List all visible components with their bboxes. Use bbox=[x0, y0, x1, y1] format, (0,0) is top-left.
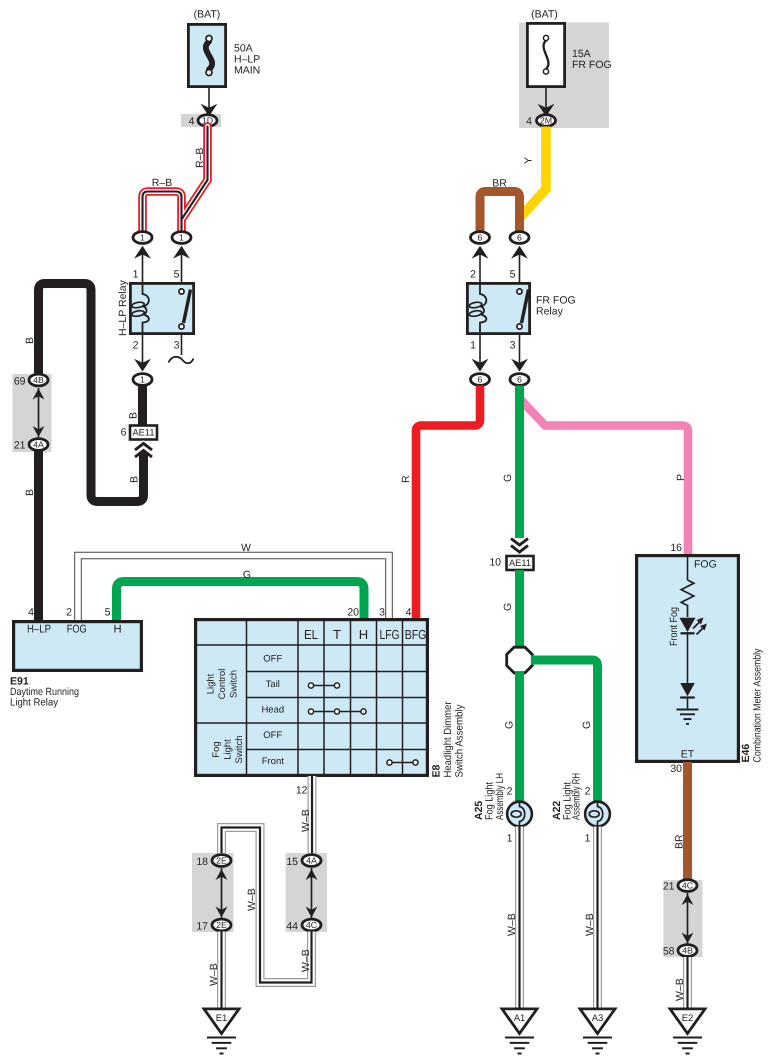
svg-text:(BAT): (BAT) bbox=[194, 9, 221, 21]
svg-text:4B: 4B bbox=[33, 375, 44, 385]
fuse F2 15A FR FOG bbox=[527, 9, 611, 87]
svg-text:6: 6 bbox=[478, 374, 483, 384]
svg-text:B: B bbox=[129, 476, 141, 483]
relay FR FOG Relay bbox=[467, 283, 575, 351]
svg-text:B: B bbox=[128, 412, 140, 419]
svg-text:Control: Control bbox=[217, 669, 228, 700]
connector 10 AE11 (right) bbox=[489, 556, 533, 570]
svg-text:R–B: R–B bbox=[194, 148, 206, 168]
wire pin16 to resistor bbox=[687, 556, 689, 580]
switch table top pin labels 20,3,4 bbox=[347, 607, 411, 619]
svg-text:4A: 4A bbox=[33, 439, 44, 449]
svg-text:Front: Front bbox=[262, 756, 285, 767]
svg-text:ET: ET bbox=[681, 749, 695, 761]
connector pair 21 4C / 58 4B bbox=[663, 880, 703, 958]
connector 4 1D bbox=[181, 114, 221, 128]
wire LED to diode bbox=[687, 632, 689, 683]
svg-text:21: 21 bbox=[14, 440, 26, 452]
svg-text:17: 17 bbox=[196, 921, 208, 933]
svg-text:Switch: Switch bbox=[234, 736, 245, 764]
svg-text:W–B: W–B bbox=[584, 913, 596, 936]
svg-text:4: 4 bbox=[189, 116, 195, 128]
wire W-B A22 to ground A3 bbox=[584, 827, 598, 1010]
combination meter E46 box bbox=[637, 542, 764, 763]
switch contacts Front row LFG-BFG bbox=[387, 760, 418, 765]
svg-text:Tail: Tail bbox=[266, 679, 280, 690]
svg-text:6: 6 bbox=[517, 232, 522, 242]
svg-text:MAIN: MAIN bbox=[234, 65, 260, 77]
wire G junction branch to A22 bbox=[531, 660, 598, 801]
connector 1 (left) bbox=[133, 232, 152, 259]
svg-text:R: R bbox=[400, 475, 412, 483]
svg-text:58: 58 bbox=[663, 946, 675, 958]
svg-text:Combination Meter Assembly: Combination Meter Assembly bbox=[752, 648, 764, 763]
svg-text:G: G bbox=[504, 721, 516, 729]
connector 6 (below relay pin 3) bbox=[510, 374, 529, 386]
svg-text:3: 3 bbox=[379, 607, 385, 619]
svg-text:W–B: W–B bbox=[246, 888, 258, 911]
svg-text:2M: 2M bbox=[540, 115, 552, 125]
label E8 Headlight Dimmer Switch Assembly bbox=[431, 701, 466, 777]
wire G from E91 pin 5 to switch pin 20 bbox=[117, 569, 365, 620]
svg-text:2: 2 bbox=[585, 786, 591, 798]
wires connectors to H-LP relay pins 1,5 bbox=[133, 250, 182, 283]
wire BR loop to relay connectors bbox=[480, 178, 520, 233]
connector 4 2M bbox=[526, 115, 555, 128]
connector pair 69 4B / 21 4A bbox=[13, 374, 52, 452]
svg-text:4C: 4C bbox=[682, 880, 694, 890]
wire B from 4A to E91 pin 4 bbox=[24, 451, 39, 621]
svg-text:1: 1 bbox=[133, 269, 139, 281]
connector pair 15 4A / 44 4C bbox=[286, 853, 328, 933]
svg-text:30: 30 bbox=[670, 763, 682, 775]
svg-text:FOG: FOG bbox=[67, 624, 87, 636]
svg-text:W: W bbox=[241, 542, 251, 554]
internal ground (meter) bbox=[677, 698, 699, 724]
switch table E8 Headlight Dimmer Switch Assembly bbox=[196, 620, 428, 776]
svg-text:W–B: W–B bbox=[506, 913, 518, 936]
svg-text:1: 1 bbox=[585, 833, 591, 845]
wire P branch to combination meter pin 16 bbox=[521, 400, 688, 554]
connector 6 (below relay pin 1) bbox=[471, 374, 490, 386]
wire relay pin 2 to connector 1 bbox=[134, 334, 151, 372]
svg-text:3: 3 bbox=[510, 340, 516, 352]
svg-text:Relay: Relay bbox=[536, 306, 564, 318]
svg-text:44: 44 bbox=[286, 921, 298, 933]
svg-text:Assembly RH: Assembly RH bbox=[571, 773, 583, 820]
svg-text:Assembly LH: Assembly LH bbox=[494, 773, 506, 820]
wire G from relay down to AE11 bbox=[502, 386, 528, 553]
wire G junction to A25 bbox=[504, 672, 520, 801]
svg-text:5: 5 bbox=[105, 607, 111, 619]
svg-text:4: 4 bbox=[406, 607, 412, 619]
svg-text:21: 21 bbox=[663, 881, 675, 893]
svg-text:AE11: AE11 bbox=[509, 558, 531, 569]
svg-text:15: 15 bbox=[286, 856, 298, 868]
meter pin ET 30 bbox=[670, 749, 694, 776]
wire B: AE11 down, U-turn left, up and over to 4B bbox=[24, 284, 144, 502]
svg-text:2: 2 bbox=[507, 786, 513, 798]
connector pair 18 2E / 17 2E bbox=[192, 853, 234, 933]
svg-text:16: 16 bbox=[670, 542, 682, 554]
svg-text:4: 4 bbox=[526, 116, 532, 128]
svg-text:1: 1 bbox=[140, 232, 145, 242]
svg-text:(BAT): (BAT) bbox=[531, 9, 558, 21]
diode (meter) bbox=[680, 683, 695, 698]
svg-text:3: 3 bbox=[174, 340, 180, 352]
svg-text:T: T bbox=[333, 627, 341, 642]
svg-text:Head: Head bbox=[261, 705, 284, 716]
ground E2 bbox=[670, 1009, 705, 1054]
svg-text:1: 1 bbox=[140, 374, 145, 384]
svg-text:B: B bbox=[24, 489, 36, 496]
wire W-B A25 to ground A1 bbox=[506, 827, 520, 1010]
svg-text:OFF: OFF bbox=[263, 730, 282, 741]
svg-text:4B: 4B bbox=[682, 945, 693, 955]
svg-text:B: B bbox=[24, 337, 36, 344]
junction node (octagon) bbox=[507, 647, 533, 673]
svg-text:E2: E2 bbox=[682, 1013, 694, 1024]
svg-text:6: 6 bbox=[478, 232, 483, 242]
svg-text:BFG: BFG bbox=[405, 627, 427, 642]
svg-text:OFF: OFF bbox=[263, 654, 282, 665]
connector 1 (below H-LP relay) bbox=[133, 374, 152, 386]
svg-text:G: G bbox=[581, 721, 593, 729]
svg-text:Light: Light bbox=[206, 673, 217, 694]
wire W-B 4B to ground E2 bbox=[674, 957, 688, 1009]
svg-text:G: G bbox=[502, 474, 514, 482]
ground E1 bbox=[204, 1009, 239, 1054]
svg-text:W–B: W–B bbox=[674, 978, 686, 1001]
svg-text:6: 6 bbox=[517, 374, 522, 384]
svg-text:1: 1 bbox=[507, 833, 513, 845]
svg-text:2: 2 bbox=[133, 340, 139, 352]
svg-text:2E: 2E bbox=[216, 920, 227, 930]
wire G AE11 to junction bbox=[502, 570, 520, 647]
resistor (meter) bbox=[681, 580, 694, 617]
svg-text:6: 6 bbox=[121, 427, 127, 439]
ground A3 bbox=[580, 1009, 615, 1054]
fuse F1 50A H-LP MAIN bbox=[188, 9, 260, 87]
svg-text:1: 1 bbox=[470, 340, 476, 352]
svg-text:4: 4 bbox=[28, 607, 34, 619]
svg-text:10: 10 bbox=[489, 557, 501, 569]
svg-text:Front Fog: Front Fog bbox=[668, 607, 680, 646]
svg-text:AE11: AE11 bbox=[133, 428, 155, 439]
svg-text:Y: Y bbox=[523, 157, 535, 164]
svg-text:W–B: W–B bbox=[208, 963, 220, 986]
svg-text:E1: E1 bbox=[216, 1013, 228, 1024]
switch contacts Tail row EL-T bbox=[308, 683, 339, 688]
svg-text:69: 69 bbox=[14, 376, 26, 388]
svg-text:W–B: W–B bbox=[300, 809, 312, 832]
svg-text:BR: BR bbox=[492, 178, 507, 190]
junction block gray panel (FR FOG fuse) bbox=[519, 23, 609, 129]
relay E91 Daytime Running Light Relay bbox=[10, 607, 141, 709]
wire B connector 1 to AE11 bbox=[128, 386, 143, 426]
wires FR FOG relay pins 1,3 to connectors bbox=[472, 334, 528, 372]
wire BR meter to 4C bbox=[674, 762, 688, 879]
wire Y from 2M bbox=[521, 127, 547, 218]
svg-text:5: 5 bbox=[174, 269, 180, 281]
svg-text:FR FOG: FR FOG bbox=[572, 59, 612, 71]
wire W-B switch pin 12 down bbox=[296, 776, 312, 854]
wires connectors to FR FOG relay pins 2,5 bbox=[470, 250, 519, 283]
svg-text:4A: 4A bbox=[306, 855, 317, 865]
wire W from E91 pin 2 to switch pin 3 bbox=[78, 542, 389, 620]
ground A1 bbox=[502, 1009, 537, 1054]
wire fuse F2 to connector 2M bbox=[538, 87, 555, 117]
svg-text:LFG: LFG bbox=[380, 627, 400, 642]
connector 6 (right, FR FOG relay pin 5) bbox=[510, 232, 529, 259]
svg-text:2: 2 bbox=[470, 269, 476, 281]
wire relay pin 3 continuation squiggle bbox=[169, 334, 194, 363]
svg-text:5: 5 bbox=[510, 269, 516, 281]
svg-text:E46: E46 bbox=[740, 744, 752, 763]
svg-text:BR: BR bbox=[674, 834, 686, 849]
svg-text:H–LP: H–LP bbox=[27, 624, 51, 636]
fog light A22 Fog Light Assembly RH bbox=[551, 773, 610, 845]
svg-text:A1: A1 bbox=[514, 1013, 526, 1024]
wire R from relay to switch pin 4 bbox=[400, 386, 480, 620]
wire R-B from 1D to relay pins (red w/ black stripe) bbox=[143, 127, 208, 233]
svg-text:Switch Assembly: Switch Assembly bbox=[454, 704, 466, 778]
svg-text:FOG: FOG bbox=[694, 559, 717, 571]
svg-text:H: H bbox=[113, 624, 121, 636]
svg-text:Light Relay: Light Relay bbox=[10, 697, 59, 709]
svg-text:P: P bbox=[675, 474, 687, 481]
fog light A25 Fog Light Assembly LH bbox=[473, 773, 532, 845]
svg-text:18: 18 bbox=[196, 856, 208, 868]
LED Front Fog bbox=[668, 607, 707, 646]
connector 1 (right) bbox=[172, 232, 191, 259]
svg-text:Headlight Dimmer: Headlight Dimmer bbox=[442, 701, 454, 777]
svg-text:12: 12 bbox=[296, 785, 308, 797]
svg-text:2E: 2E bbox=[216, 855, 227, 865]
svg-text:A3: A3 bbox=[592, 1013, 604, 1024]
svg-text:2: 2 bbox=[66, 607, 72, 619]
svg-text:H–LP Relay: H–LP Relay bbox=[117, 279, 129, 336]
svg-text:G: G bbox=[502, 603, 514, 611]
svg-text:G: G bbox=[243, 569, 251, 581]
svg-text:Light: Light bbox=[223, 739, 234, 760]
svg-text:20: 20 bbox=[347, 607, 359, 619]
svg-text:Switch: Switch bbox=[229, 670, 240, 698]
svg-text:4C: 4C bbox=[306, 920, 318, 930]
svg-text:E8: E8 bbox=[431, 764, 443, 777]
svg-text:1: 1 bbox=[179, 232, 184, 242]
switch contacts Head row EL-T-H bbox=[308, 709, 366, 714]
svg-text:EL: EL bbox=[304, 627, 318, 642]
wire fuse F1 to connector 1D bbox=[201, 88, 218, 117]
connector 6 (left, FR FOG relay pin 2) bbox=[471, 232, 490, 259]
svg-text:W–B: W–B bbox=[300, 949, 312, 972]
svg-text:H: H bbox=[359, 627, 368, 642]
wire W-B snake 4C to 2E bbox=[222, 828, 313, 983]
wire W-B 2E to ground E1 bbox=[208, 932, 222, 1010]
svg-text:R–B: R–B bbox=[152, 177, 172, 189]
svg-text:Fog: Fog bbox=[211, 741, 222, 757]
relay H-LP Relay bbox=[117, 279, 194, 351]
connector 6 AE11 (left) bbox=[121, 426, 157, 458]
